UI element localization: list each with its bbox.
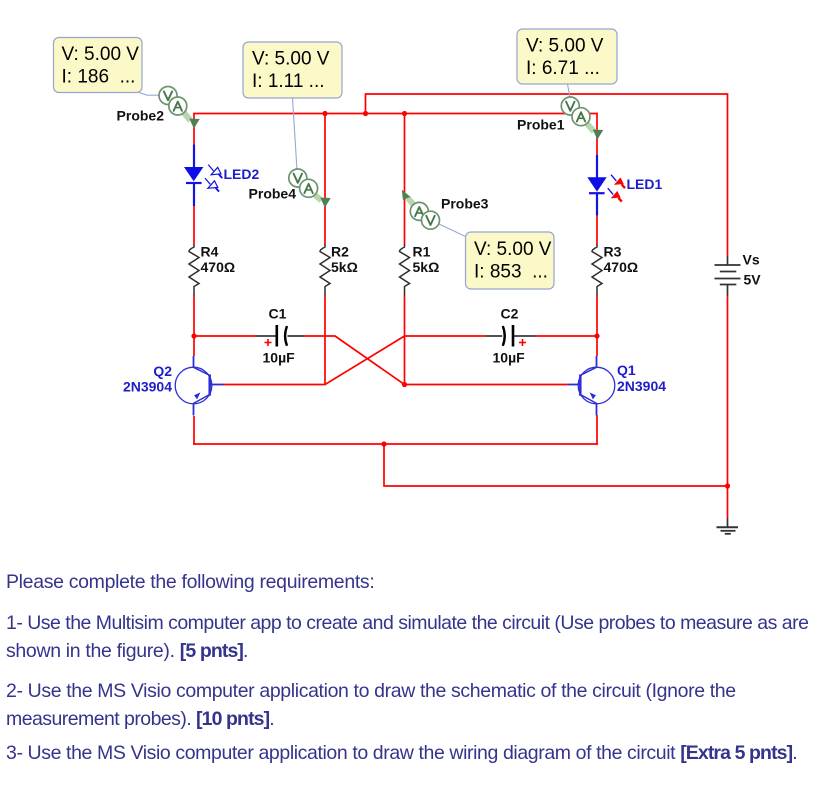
svg-text:LED2: LED2 [224,166,260,182]
measurement box probe2 [54,38,143,93]
junction Q1 base / R1 bottom / C1 right [402,382,407,387]
svg-text:V: 5.00 V: V: 5.00 V [474,239,552,260]
svg-text:R4: R4 [201,244,219,260]
wire upper rail y=94 to Vs [366,94,728,256]
svg-text:I: 6.71 ...: I: 6.71 ... [526,58,600,79]
probe Probe3 icon [402,190,440,230]
wire C2 right [535,335,597,337]
measurement box probe1 [517,29,617,84]
svg-text:5V: 5V [744,272,762,288]
probe3 link [438,224,466,237]
resistor R4 470ohm [189,245,199,296]
probe Probe4 icon [289,169,331,208]
svg-text:V: 5.00 V: V: 5.00 V [62,44,140,65]
measurement box probe4 [243,42,342,98]
wire Q1 emitter down [596,415,598,445]
svg-text:10µF: 10µF [493,350,526,366]
transistor Q1 2N3904 [568,356,615,416]
wire LED2 bottom to R4 [193,206,195,245]
svg-text:10µF: 10µF [263,350,296,366]
svg-text:R2: R2 [331,244,349,260]
svg-text:Probe3: Probe3 [441,196,489,212]
junction Q1 collector / C2 right [594,333,599,338]
svg-text:Probe4: Probe4 [249,186,297,202]
svg-text:I: 1.11 ...: I: 1.11 ... [252,71,325,92]
wire LED1 bottom to R3 [596,215,598,245]
wire R2 branch [324,114,326,246]
svg-text:I: 186 ...: I: 186 ... [62,67,136,88]
svg-text:5kΩ: 5kΩ [331,259,358,275]
wire bottom emitter rail y=444 [193,443,598,445]
svg-text:V: 5.00 V: V: 5.00 V [526,36,604,57]
junction emitter rail / ground drop [381,441,386,446]
svg-text:R3: R3 [604,244,622,260]
junction +V rail jog [363,111,368,116]
probe1 link [568,84,571,98]
resistor R2 5k [320,245,330,296]
LED1 [587,155,625,215]
resistor R1 5k [400,245,410,296]
capacitor C1 10uF [256,325,304,347]
resistor R3 470ohm [592,245,602,296]
junction Q2 collector / C1 left [191,333,196,338]
probe Probe1 icon [561,97,603,140]
probe Probe2 icon [159,87,200,129]
ground [717,518,739,534]
transistor Q2 2N3904 (mirrored) [175,356,223,416]
wire Q1 base [405,384,569,386]
wire R1 branch [404,114,406,246]
wire top rail y=113.5 [194,114,597,156]
svg-text:Probe2: Probe2 [117,108,165,124]
svg-text:C1: C1 [269,306,287,322]
junction R1 top / +V rail [402,111,407,116]
svg-text:470Ω: 470Ω [604,259,639,275]
probe connector lines [133,84,570,237]
wire C1 right + diagonal to Q1 base node [303,336,405,385]
wire C2 left diagonal to Q2 base node [325,336,486,385]
wire R4 bottom to Q2 collector [193,295,195,356]
svg-text:LED1: LED1 [627,176,663,192]
capacitor C2 10uF [486,325,536,347]
LED2 [184,145,222,207]
svg-text:R1: R1 [413,244,431,260]
svg-text:V: 5.00 V: V: 5.00 V [252,49,330,70]
svg-text:I: 853 ...: I: 853 ... [474,262,548,283]
wire C1 left [194,335,256,337]
svg-text:2N3904: 2N3904 [617,378,666,394]
wire right rail battery to ground [727,295,729,518]
svg-text:5kΩ: 5kΩ [413,259,440,275]
svg-text:470Ω: 470Ω [201,259,236,275]
svg-text:C2: C2 [501,306,519,322]
junction ground rail / battery minus [725,483,730,488]
wire R3 bottom to Q1 collector [596,295,598,356]
svg-text:2N3904: 2N3904 [123,379,172,395]
svg-text:Q2: Q2 [153,363,172,379]
wire Q2 base [223,384,326,386]
svg-text:Probe1: Probe1 [517,117,565,133]
junction R2 top / +V rail [322,111,327,116]
battery Vs 5V [715,256,741,296]
measurement box probe3 [466,232,555,289]
wire center drop to ground rail [384,444,728,486]
requirements text [6,573,374,593]
wire Q2 emitter down [193,416,195,445]
svg-text:Vs: Vs [743,252,760,268]
probe2 link [133,91,160,96]
svg-text:Q1: Q1 [617,362,636,378]
probe4 link [293,98,298,170]
